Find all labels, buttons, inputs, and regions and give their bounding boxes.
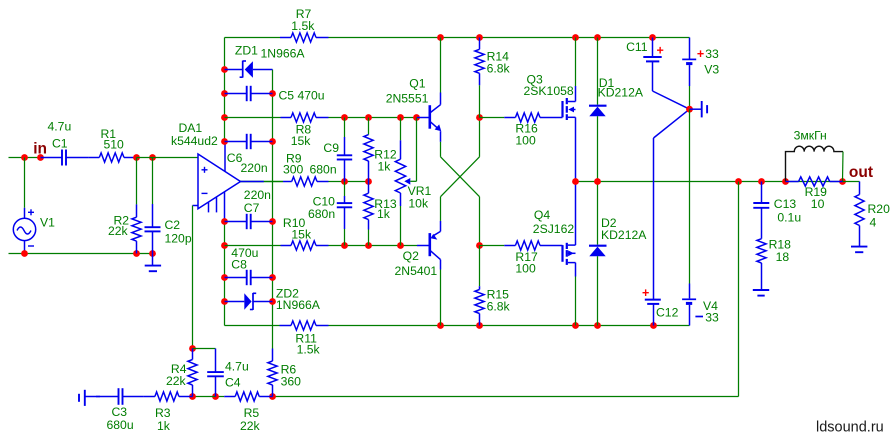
junction: left rail ZD2 xyxy=(221,298,228,305)
resistor R3 xyxy=(144,392,193,433)
junction: left rail R10 row xyxy=(221,242,228,249)
svg-text:33: 33 xyxy=(705,311,719,325)
svg-text:KD212A: KD212A xyxy=(598,86,644,100)
junction: feedback divider node xyxy=(212,393,219,400)
junction: left rail ZD1 xyxy=(221,66,228,73)
junction: R10 row VR1 bottom xyxy=(397,242,404,249)
svg-text:Q2: Q2 xyxy=(403,249,419,263)
wire: zener common rail (x=272) xyxy=(272,70,274,349)
junction: R8 row VR1 top xyxy=(397,114,404,121)
junction: bottom rail D2 xyxy=(594,322,601,329)
svg-text:1.5k: 1.5k xyxy=(297,342,321,356)
svg-text:2SJ162: 2SJ162 xyxy=(533,222,575,236)
junction: R8 row C9 xyxy=(341,114,348,121)
svg-text:R5: R5 xyxy=(244,406,260,420)
svg-text:Q4: Q4 xyxy=(534,208,550,222)
svg-text:15k: 15k xyxy=(291,134,312,148)
resistor R7 xyxy=(280,7,329,42)
diode D1 KD212A xyxy=(589,38,644,182)
svg-text:out: out xyxy=(849,164,873,181)
junction: top rail C11 xyxy=(649,34,656,41)
svg-text:6.8k: 6.8k xyxy=(487,62,511,76)
capacitor C1 xyxy=(41,119,89,165)
svg-text:R3: R3 xyxy=(155,406,171,420)
junction: bottom rail C12 xyxy=(650,322,657,329)
resistor R4 xyxy=(166,349,197,397)
resistor R11 xyxy=(280,321,329,357)
capacitor C9 xyxy=(310,118,353,182)
junction: common rail C7 xyxy=(269,218,276,225)
resistor R10 xyxy=(281,216,329,250)
svg-text:V1: V1 xyxy=(40,216,55,230)
wire: feedback bottom rail xyxy=(273,396,739,398)
junction: V1 bottom xyxy=(21,250,28,257)
wire: V+ node rail (left rail upper) xyxy=(224,38,226,142)
resistor R1 xyxy=(89,127,137,162)
resistor R19 xyxy=(786,177,843,211)
capacitor C2 xyxy=(145,158,192,254)
svg-text:C5 470u: C5 470u xyxy=(279,88,325,102)
svg-text:C1: C1 xyxy=(52,136,68,150)
watermark ldsound.ru xyxy=(816,420,884,436)
svg-text:22k: 22k xyxy=(240,419,261,433)
svg-text:k544ud2: k544ud2 xyxy=(171,134,218,148)
mosfet Q3 2SK1058 xyxy=(524,38,576,182)
svg-text:220n: 220n xyxy=(241,161,268,175)
junction: mid rail Q3/Q4 source xyxy=(572,178,579,185)
junction: common rail C5 xyxy=(269,90,276,97)
junction: ground node A xyxy=(686,106,693,113)
wire: V- node rail (left rail lower) xyxy=(224,222,226,326)
wire: R8 row (V+ to Q1 base) xyxy=(225,117,418,119)
svg-text:1N966A: 1N966A xyxy=(276,298,321,312)
junction: mid rail feedback tap xyxy=(735,178,742,185)
svg-text:4.7u: 4.7u xyxy=(48,119,72,133)
svg-text:2SK1058: 2SK1058 xyxy=(524,84,574,98)
svg-text:510: 510 xyxy=(104,138,125,152)
svg-text:C12: C12 xyxy=(656,305,679,319)
svg-text:KD212A: KD212A xyxy=(601,228,647,242)
op-amp DA1 k544ud2 xyxy=(171,121,241,222)
junction: R10 row C10 xyxy=(341,242,348,249)
junction: top rail R14 xyxy=(476,34,483,41)
junction: top rail D1 xyxy=(594,34,601,41)
svg-text:V3: V3 xyxy=(704,62,719,76)
svg-text:C11: C11 xyxy=(626,40,648,54)
wire: R14 node to Q2 emitter (cross) xyxy=(441,118,480,221)
node out label xyxy=(849,164,873,181)
svg-text:10k: 10k xyxy=(408,197,429,211)
wire: -33 bottom rail xyxy=(225,325,690,327)
wire: Q1 emitter to R17 node (cross) xyxy=(441,142,480,246)
junction: R9 row R12/R13 xyxy=(365,178,372,185)
junction: common rail ZD2 xyxy=(269,298,276,305)
node in label xyxy=(33,141,47,158)
junction: bottom rail R15 xyxy=(476,322,483,329)
ground at R18 xyxy=(753,290,769,296)
svg-text:ldsound.ru: ldsound.ru xyxy=(816,420,884,436)
transistor Q2 2N5401 xyxy=(395,221,441,326)
svg-text:680u: 680u xyxy=(107,418,134,432)
diode D2 KD212A xyxy=(589,182,647,326)
ground at C2 xyxy=(145,254,161,272)
svg-text:1k: 1k xyxy=(377,207,391,221)
capacitor C8 xyxy=(225,246,273,285)
capacitor C13 xyxy=(753,182,801,239)
svg-text:4: 4 xyxy=(870,215,877,229)
resistor R15 xyxy=(475,246,511,326)
junction: mid rail L/R19 left xyxy=(782,178,789,185)
svg-text:6.8k: 6.8k xyxy=(487,299,511,313)
svg-text:100: 100 xyxy=(515,133,536,147)
junction: R10 row R13 xyxy=(365,242,372,249)
junction: R4/C4 top node xyxy=(189,345,196,352)
svg-text:+: + xyxy=(642,286,649,300)
svg-text:360: 360 xyxy=(281,374,302,388)
svg-text:in: in xyxy=(33,141,47,158)
junction: R15/R17 node xyxy=(476,242,483,249)
resistor R9 xyxy=(241,152,369,187)
junction: left rail R8 row xyxy=(221,114,228,121)
svg-text:Q1: Q1 xyxy=(409,76,425,90)
svg-text:DA1: DA1 xyxy=(179,121,203,135)
zener diode ZD1 xyxy=(225,44,306,78)
svg-text:C3: C3 xyxy=(112,405,128,419)
zener diode ZD2 xyxy=(225,286,321,311)
svg-text:C9: C9 xyxy=(323,141,339,155)
svg-text:3мкГн: 3мкГн xyxy=(794,129,827,143)
svg-text:680n: 680n xyxy=(310,162,337,176)
svg-text:ZD1: ZD1 xyxy=(235,44,258,58)
junction: top rail Q1 collector xyxy=(437,34,444,41)
junction: bottom rail Q2 collector xyxy=(437,322,444,329)
capacitor C7 xyxy=(225,188,273,229)
wire: R4 to C4 top jog xyxy=(193,348,216,350)
junction: V1 top / input wire xyxy=(21,154,28,161)
resistor R8 xyxy=(281,113,329,148)
junction: left rail C7 xyxy=(221,218,228,225)
resistor R14 xyxy=(475,38,511,118)
junction: common rail C8 xyxy=(269,274,276,281)
svg-text:2N5551: 2N5551 xyxy=(386,91,429,105)
svg-text:100: 100 xyxy=(515,261,536,275)
junction: feedback node R6 xyxy=(269,393,276,400)
potentiometer VR1 xyxy=(395,118,431,246)
junction: input wire node at C1 xyxy=(37,154,44,161)
junction: R8 row R12 xyxy=(365,114,372,121)
resistor R16 xyxy=(480,113,563,147)
capacitor C11 xyxy=(626,38,689,110)
resistor R18 xyxy=(757,238,791,290)
svg-text:C8: C8 xyxy=(231,257,247,271)
junction: mid rail zobel tap xyxy=(758,178,765,185)
resistor R17 xyxy=(480,241,563,275)
junction: left rail C5 xyxy=(221,90,228,97)
svg-text:1k: 1k xyxy=(157,419,171,433)
svg-text:2N5401: 2N5401 xyxy=(395,264,438,278)
svg-text:4.7u: 4.7u xyxy=(225,360,249,374)
resistor R12 xyxy=(364,118,397,182)
resistor R6 xyxy=(268,349,301,397)
transistor Q1 2N5551 xyxy=(386,38,442,142)
wire: output mid rail xyxy=(576,181,843,183)
wire: inverting input jog xyxy=(193,206,199,349)
battery V3 xyxy=(682,38,719,110)
capacitor C6 xyxy=(225,134,273,175)
svg-text:15k: 15k xyxy=(291,227,312,241)
svg-text:C13: C13 xyxy=(774,197,797,211)
svg-text:22k: 22k xyxy=(166,374,187,388)
ground at C3 (input side) xyxy=(79,390,100,406)
svg-text:C7: C7 xyxy=(244,201,260,215)
svg-text:300: 300 xyxy=(283,162,304,176)
wire: R1 node to op-amp + input xyxy=(137,157,199,159)
svg-text:18: 18 xyxy=(776,250,790,264)
wire: +33 top rail xyxy=(225,37,690,39)
mosfet Q4 2SJ162 xyxy=(533,182,576,326)
svg-text:680n: 680n xyxy=(308,207,335,221)
capacitor C12 xyxy=(642,109,690,325)
capacitor C5 xyxy=(225,86,325,103)
capacitor C10 xyxy=(308,182,352,246)
svg-text:0.1u: 0.1u xyxy=(777,210,801,224)
wire: R3-R4 node xyxy=(193,396,216,398)
battery V4 xyxy=(682,109,719,325)
svg-text:R20: R20 xyxy=(868,202,891,216)
ground at supply midpoint xyxy=(690,101,708,117)
junction: R4 bottom node xyxy=(189,393,196,400)
wire: R10 row (V- to Q2 base) xyxy=(225,245,418,247)
svg-text:+: + xyxy=(697,47,704,61)
svg-text:1k: 1k xyxy=(378,159,392,173)
junction: top rail Q3 drain xyxy=(572,34,579,41)
wire: op-amp output row (R9 feed) xyxy=(241,181,284,183)
junction: R2 bottom xyxy=(133,250,140,257)
junction: mid rail D1/D2 xyxy=(594,178,601,185)
junction: output node xyxy=(839,178,846,185)
svg-text:1N966A: 1N966A xyxy=(261,46,306,60)
junction: R14/R16 node xyxy=(476,114,483,121)
svg-text:C4: C4 xyxy=(225,376,241,390)
svg-text:+: + xyxy=(657,44,664,58)
resistor R20 xyxy=(843,182,891,247)
capacitor C4 xyxy=(207,349,249,397)
junction: R2C2 row C2 tap xyxy=(149,154,156,161)
svg-text:10: 10 xyxy=(811,197,825,211)
svg-text:22k: 22k xyxy=(108,224,129,238)
inductor L1 3uH xyxy=(786,129,844,182)
source V1 (sine) xyxy=(13,158,55,254)
junction: left rail C6 xyxy=(221,138,228,145)
wire: input segment left stub to C1 (in net) xyxy=(9,157,41,159)
wire: bottom ground wire of input stage xyxy=(9,253,153,255)
svg-text:C2: C2 xyxy=(165,218,181,232)
wire: feedback vertical from output xyxy=(738,182,740,397)
svg-text:1.5k: 1.5k xyxy=(291,19,315,33)
junction: left rail C8 xyxy=(221,274,228,281)
svg-text:220n: 220n xyxy=(244,188,271,202)
svg-text:33: 33 xyxy=(705,47,719,61)
capacitor C3 xyxy=(96,388,144,432)
junction: R9 row C9/C10 xyxy=(341,178,348,185)
junction: bottom rail Q4 drain xyxy=(572,322,579,329)
resistor R5 xyxy=(216,392,273,433)
junction: C2 bottom xyxy=(149,250,156,257)
ground at R20 xyxy=(851,247,867,253)
resistor R2 xyxy=(108,158,141,254)
junction: R8 row wiper xyxy=(413,114,420,121)
junction: common rail C6 xyxy=(269,138,276,145)
junction: R1/R2 node xyxy=(133,154,140,161)
svg-text:120p: 120p xyxy=(165,232,192,246)
resistor R13 xyxy=(364,182,397,246)
